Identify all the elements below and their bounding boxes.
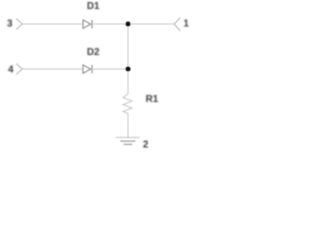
svg-text:1: 1: [183, 19, 189, 30]
svg-text:4: 4: [8, 64, 14, 75]
wire D2 cathode to node B: [92, 68, 128, 70]
port chevron node 1: [174, 18, 180, 31]
svg-text:2: 2: [143, 139, 149, 150]
ground: [116, 137, 140, 144]
junction node A: [125, 21, 130, 26]
svg-text:R1: R1: [146, 94, 159, 105]
wire node3 to D1 anode: [22, 23, 83, 25]
wire node A to port 1: [128, 23, 174, 25]
wire R1 to ground: [127, 114, 129, 137]
wire D1 cathode to node A: [92, 23, 128, 25]
junction node B: [125, 66, 130, 71]
wire node4 to D2 anode: [22, 68, 83, 70]
port chevron node 3: [16, 19, 22, 30]
wire node B down to resistor R1: [127, 69, 129, 94]
wire node A down to node B: [127, 24, 129, 69]
diode D2: [83, 65, 92, 73]
svg-text:D2: D2: [87, 47, 100, 58]
resistor R1 zigzag: [123, 94, 132, 114]
svg-text:D1: D1: [87, 1, 100, 12]
svg-text:3: 3: [7, 18, 13, 29]
port chevron node 4: [16, 64, 22, 75]
diode D1: [83, 20, 92, 28]
